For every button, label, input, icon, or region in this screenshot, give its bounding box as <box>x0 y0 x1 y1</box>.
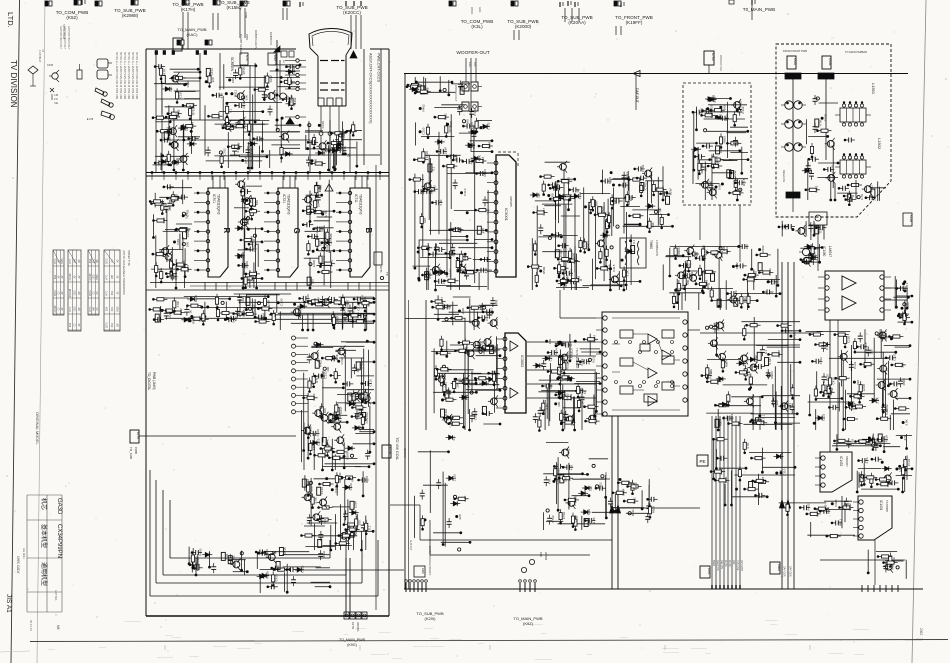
svg-text:1815: 1815 <box>74 306 76 312</box>
svg-text:KTC: KTC <box>107 290 109 295</box>
svg-text:POWER TYPE: POWER TYPE <box>127 250 130 266</box>
svg-text:2SC945: 2SC945 <box>70 288 72 297</box>
svg-text:ORIGINAL MODEL: ORIGINAL MODEL <box>35 412 39 445</box>
svg-text:(K52): (K52) <box>66 15 78 20</box>
svg-text:T0_MAIN_PWB: T0_MAIN_PWB <box>743 7 775 12</box>
svg-text:ASSY,CRT-CKCS(XXXXXXXXXXXXXXX): ASSY,CRT-CKCS(XXXXXXXXXXXXXXX) <box>369 53 373 124</box>
svg-text:TDA6111Q/N3: TDA6111Q/N3 <box>217 194 221 215</box>
svg-text:KTC: KTC <box>70 258 72 263</box>
svg-text:JIS A1: JIS A1 <box>5 594 12 613</box>
svg-text:(K19FF): (K19FF) <box>626 20 643 25</box>
svg-text:QP: QP <box>117 323 119 327</box>
svg-text:CX34P99PN: CX34P99PN <box>56 524 62 558</box>
svg-text:NOTES: ALL RESISTORS ARE IN OH: NOTES: ALL RESISTORS ARE IN OHM 1/4W <box>123 52 126 100</box>
svg-text:1990/ CAD#: 1990/ CAD# <box>16 556 20 574</box>
svg-text:(K2000): (K2000) <box>515 24 532 29</box>
svg-text:206Z: 206Z <box>919 628 923 635</box>
svg-text:IC701: IC701 <box>212 194 216 203</box>
svg-text:Q701: Q701 <box>107 257 109 263</box>
svg-text:TV DIVISION: TV DIVISION <box>9 60 18 108</box>
svg-text:KTC: KTC <box>90 306 92 311</box>
svg-text:05.12.26: 05.12.26 <box>29 620 33 631</box>
svg-text:QP: QP <box>97 259 99 263</box>
svg-text:CAUTION HIGH VOLT: CAUTION HIGH VOLT <box>67 26 70 50</box>
svg-text:TDA6111Q/N3: TDA6111Q/N3 <box>287 194 291 215</box>
svg-text:2SC: 2SC <box>93 258 95 263</box>
svg-text:NOTES: ALL RESISTORS ARE IN OH: NOTES: ALL RESISTORS ARE IN OHM 1/4W <box>119 52 122 100</box>
svg-text:NOTES: ALL RESISTORS ARE IN OH: NOTES: ALL RESISTORS ARE IN OHM 1/4W <box>127 52 130 100</box>
svg-text:2SA: 2SA <box>69 322 72 327</box>
svg-text:2SC: 2SC <box>112 322 114 327</box>
svg-text:IC711: IC711 <box>354 194 358 203</box>
svg-text:TDA6111Q/N3: TDA6111Q/N3 <box>359 194 363 215</box>
svg-text:LIST OF REPLACEABLE TRANSISTOR: LIST OF REPLACEABLE TRANSISTORS <box>122 250 125 295</box>
svg-text:基本机型: 基本机型 <box>40 524 48 548</box>
svg-text:1 B: 1 B <box>54 94 58 97</box>
svg-text:DC800V-CAF IN: DC800V-CAF IN <box>254 30 258 49</box>
svg-text:(KAC): (KAC) <box>187 32 199 37</box>
svg-text:通用机型: 通用机型 <box>40 562 48 586</box>
svg-text:CAUTION HIGH VOLT: CAUTION HIGH VOLT <box>63 26 66 50</box>
svg-text:NOTES: ALL RESISTORS ARE IN OH: NOTES: ALL RESISTORS ARE IN OHM 1/4W <box>115 52 118 100</box>
svg-text:2SC: 2SC <box>112 290 114 295</box>
svg-text:1815: 1815 <box>74 290 76 296</box>
svg-text:LTD.: LTD. <box>6 12 15 28</box>
svg-text:2SC: 2SC <box>112 306 114 311</box>
svg-text:NOTES: ALL RESISTORS ARE IN OH: NOTES: ALL RESISTORS ARE IN OHM 1/4W <box>135 52 138 100</box>
svg-text:(K17H): (K17H) <box>181 7 196 12</box>
svg-text:E C B: E C B <box>87 118 94 121</box>
svg-text:C3198: C3198 <box>55 305 57 312</box>
svg-text:WOOF: WOOF <box>470 7 473 15</box>
svg-text:KTC: KTC <box>107 274 109 279</box>
svg-text:QP: QP <box>79 259 81 263</box>
svg-text:2 C: 2 C <box>54 98 58 101</box>
svg-text:QP: QP <box>79 307 81 311</box>
svg-text:SCREEN: SCREEN <box>230 57 234 72</box>
svg-text:2SA: 2SA <box>89 258 92 263</box>
svg-text:(K20AA): (K20AA) <box>568 20 586 25</box>
svg-text:K5D: K5D <box>273 55 277 62</box>
svg-text:WOOFER-OUT: WOOFER-OUT <box>456 50 489 56</box>
svg-text:K7S: K7S <box>245 55 249 61</box>
svg-text:R: R <box>222 228 231 234</box>
svg-text:1815: 1815 <box>93 274 95 280</box>
svg-text:KTC: KTC <box>70 306 72 311</box>
svg-text:机芯: 机芯 <box>40 498 48 510</box>
svg-text:QP: QP <box>79 291 81 295</box>
svg-text:Q701: Q701 <box>90 289 92 295</box>
svg-text:(K3L): (K3L) <box>471 24 483 29</box>
svg-text:1: 1 <box>42 49 44 53</box>
svg-text:KTC: KTC <box>55 258 57 263</box>
svg-text:2SA: 2SA <box>54 274 57 279</box>
svg-text:T08B: T08B <box>244 12 248 18</box>
svg-text:DC800V IN: DC800V IN <box>269 32 273 45</box>
svg-text:P05F: P05F <box>245 34 249 41</box>
svg-text:8050: 8050 <box>97 274 99 280</box>
svg-text:GND: GND <box>478 7 481 13</box>
svg-text:C3198: C3198 <box>70 273 72 280</box>
svg-text:LOT NO.: LOT NO. <box>54 590 58 601</box>
svg-text:Q701: Q701 <box>55 289 57 295</box>
svg-text:8050: 8050 <box>117 306 119 312</box>
svg-text:8050: 8050 <box>62 258 64 264</box>
svg-text:HG 9DH: HG 9DH <box>22 548 26 559</box>
svg-text:NOTES: ALL RESISTORS ARE IN OH: NOTES: ALL RESISTORS ARE IN OHM 1/4W <box>131 52 134 100</box>
svg-text:CAUTION HIGH VOLT: CAUTION HIGH VOLT <box>59 26 62 50</box>
svg-text:PWB,CRT-CKCS: PWB,CRT-CKCS <box>377 53 381 83</box>
svg-text:2SA: 2SA <box>106 306 109 311</box>
svg-text:(K15M): (K15M) <box>226 5 242 10</box>
svg-text:G: G <box>292 228 301 234</box>
svg-text:Q701: Q701 <box>107 321 109 327</box>
svg-text:(K20CC): (K20CC) <box>343 10 361 15</box>
svg-text:C3198: C3198 <box>90 273 92 280</box>
svg-text:TO RBT SCREEN: TO RBT SCREEN <box>239 34 243 55</box>
svg-text:IC721: IC721 <box>282 194 286 203</box>
svg-text:3 E: 3 E <box>54 102 58 105</box>
svg-text:C945: C945 <box>47 63 54 67</box>
svg-text:DKS: DKS <box>179 40 183 46</box>
svg-text:GA3D: GA3D <box>56 498 62 515</box>
svg-text:(K2988): (K2988) <box>122 13 139 18</box>
